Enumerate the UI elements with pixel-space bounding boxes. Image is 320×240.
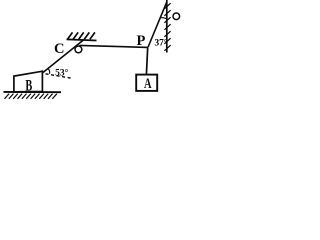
- ring O on wall: [173, 13, 180, 20]
- pulley C: [75, 46, 82, 53]
- svg-text:53°: 53°: [55, 67, 69, 78]
- svg-text:C: C: [54, 41, 64, 57]
- ground hatching: [5, 94, 57, 99]
- string P to wall point O: [148, 2, 167, 47]
- ground line: [4, 91, 62, 93]
- svg-text:P: P: [136, 33, 145, 49]
- ceiling hatching: [68, 32, 95, 39]
- block A: [136, 75, 157, 91]
- wall hatching: [164, 3, 170, 51]
- block B: [14, 71, 43, 92]
- svg-text:A: A: [144, 76, 152, 92]
- angle arc 37: [160, 18, 166, 19]
- string P down to block A: [146, 47, 147, 74]
- string C to P: [80, 45, 148, 47]
- angle arc 53: [48, 69, 49, 74]
- string B to ceiling over pulley C: [43, 40, 84, 73]
- ceiling line: [67, 39, 97, 40]
- wall line: [166, 0, 168, 53]
- dashed reference line at B corner: [46, 74, 73, 79]
